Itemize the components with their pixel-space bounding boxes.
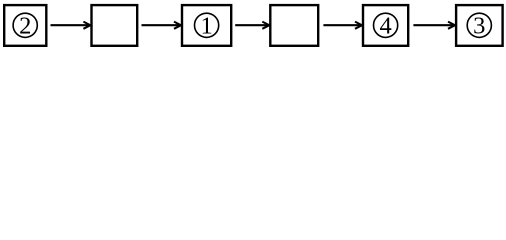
box 5 (step 4) — [363, 5, 408, 46]
wire / arrow 1 — [51, 22, 91, 29]
wire / arrow 2 — [142, 22, 182, 29]
circled digit 1 — [195, 13, 219, 40]
circled digit 4 — [374, 13, 398, 40]
wire / arrow 4 — [323, 22, 362, 29]
flow diagram: sequence of process boxes connected by arrows — [0, 0, 506, 50]
svg-text:1: 1 — [200, 13, 212, 40]
background — [0, 0, 506, 50]
wire / arrow 5 — [413, 22, 455, 29]
box 6 (step 3) — [456, 5, 503, 46]
circled digit 3 — [467, 13, 491, 40]
svg-text:4: 4 — [379, 13, 391, 40]
circled digit 2 — [13, 13, 37, 40]
svg-text:3: 3 — [473, 13, 485, 40]
box 4 (empty) — [270, 5, 318, 46]
box 3 (step 1) — [182, 5, 231, 46]
wire / arrow 3 — [235, 22, 269, 29]
box 2 (empty) — [92, 5, 138, 46]
box 1 (step 2) — [4, 5, 46, 46]
svg-text:2: 2 — [19, 13, 31, 40]
